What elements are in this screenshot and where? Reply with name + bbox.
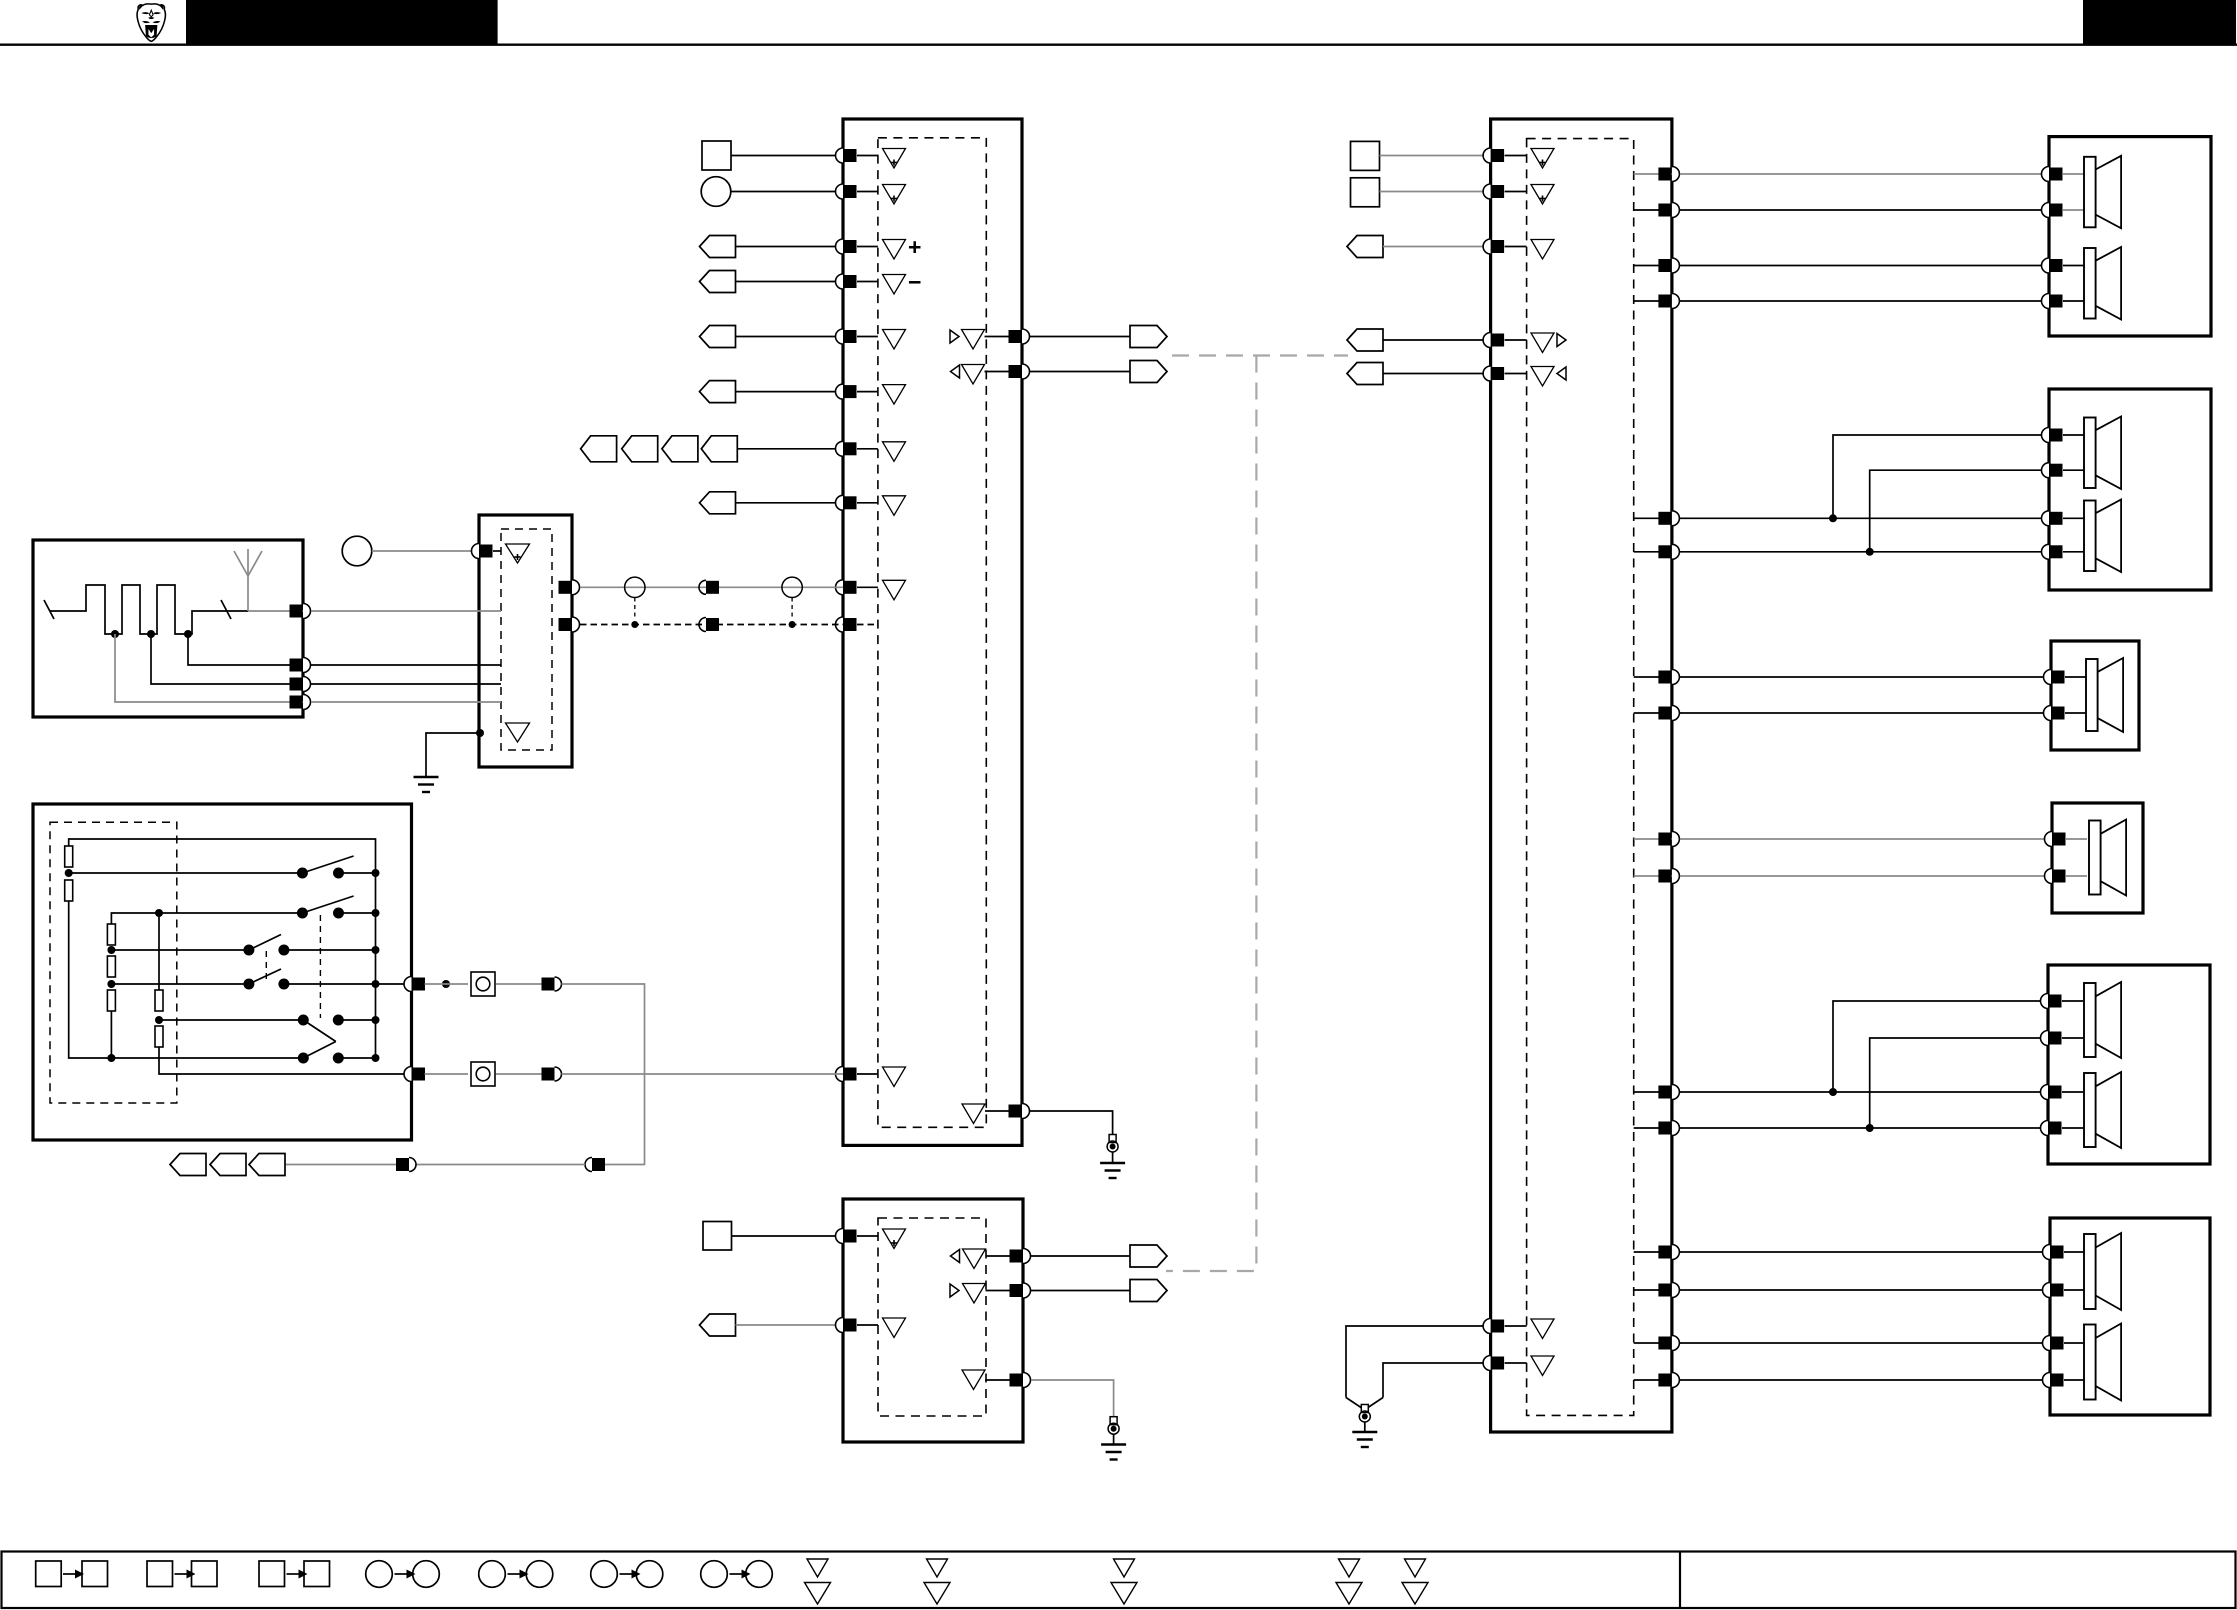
resistor R1 <box>65 846 73 867</box>
grommet 1 shield tie <box>631 598 638 629</box>
antenna amplifier U4 box <box>479 515 572 767</box>
speaker box SP5 <box>2048 965 2210 1164</box>
U3 pin1 triangle <box>883 1229 906 1249</box>
element tap 2 <box>147 630 303 684</box>
SP2 pin 3 <box>2042 511 2084 526</box>
out arrow B <box>1130 361 1167 383</box>
resistor R7 <box>155 1026 163 1047</box>
U1 pin 5 <box>836 329 878 344</box>
screened link horizontal <box>1172 354 1348 356</box>
arrow tag A4 <box>700 271 736 293</box>
pin 5 triangle <box>883 330 906 350</box>
U1 out pin B <box>1009 364 1030 379</box>
U2 out row 14 wire <box>1634 1283 2049 1298</box>
row6 branch <box>1866 470 2049 556</box>
wire out A <box>1030 336 1130 338</box>
U3 out arrow 2 <box>1130 1280 1167 1302</box>
switch pack dashed module <box>50 822 177 1103</box>
R2 chain wire <box>69 901 112 1058</box>
U3 out pin 2 <box>1010 1283 1031 1298</box>
switch linkage C-D (dashed) <box>265 951 267 982</box>
U2 pin 1 <box>1483 148 1526 163</box>
resistor R4 <box>107 956 115 977</box>
amplifier U3 box <box>843 1199 1023 1442</box>
wire tags segment <box>285 1164 396 1166</box>
U2 out row 15 wire <box>1634 1336 2049 1351</box>
arrow tag A7 <box>700 381 736 403</box>
resistor R3 <box>107 924 115 945</box>
node E <box>155 1016 163 1024</box>
pin 13 triangle <box>962 1104 1013 1124</box>
resistor R2 <box>65 880 73 901</box>
row A wire <box>69 872 376 874</box>
U1 pin 11 (shield) <box>836 617 878 632</box>
U2 pin2 triangle <box>1531 185 1554 205</box>
U4 ground triangle <box>506 723 530 742</box>
legend pair 4 <box>366 1561 440 1588</box>
coax grommet 1 <box>625 577 645 597</box>
pin 12 triangle <box>883 1067 906 1087</box>
wire to arrow tags <box>416 1164 585 1166</box>
R7 output wire <box>159 1047 412 1074</box>
U2 pin6 triangle <box>1531 1319 1554 1339</box>
U4 ground wire <box>426 733 479 777</box>
coax wire <box>580 586 843 588</box>
SP5 pin 1 <box>2041 994 2083 1009</box>
wire J1 to connector <box>496 983 542 985</box>
SP4 pin 1 <box>2045 832 2088 847</box>
wire A4 to U1 pin4 <box>736 281 844 283</box>
arrow tag A5 <box>700 326 736 348</box>
row B wire <box>111 913 375 924</box>
U2 out row 6 wire <box>1634 544 2049 559</box>
element tap 3 <box>184 630 303 665</box>
speaker SP5a <box>2084 982 2121 1058</box>
U4 pin 1 <box>472 544 502 559</box>
U2 out row 1 wire <box>1634 167 2049 182</box>
inline joint J2 <box>471 1062 495 1086</box>
U1 pin 12 (switch input) <box>836 1067 878 1082</box>
U4 pin1 triangle <box>506 544 530 563</box>
antenna symbol <box>234 549 262 611</box>
legend pair 7 <box>701 1561 773 1588</box>
U1 ground eyelet <box>1107 1135 1118 1164</box>
screen pin 3 <box>290 677 311 692</box>
SP2 pin 1 <box>2042 428 2084 443</box>
feed wire top <box>69 839 376 873</box>
U2 pin4 triangle pair <box>1531 333 1566 353</box>
screen pin 1 <box>290 604 311 619</box>
U2 out row 7 wire <box>1634 670 2049 685</box>
U2 out row 4 wire <box>1634 294 2049 309</box>
antenna feed wire <box>248 610 303 612</box>
wire S1 to U1 pin1 <box>731 155 843 157</box>
legend pair 5 <box>479 1561 553 1588</box>
arrow tag A13 <box>1347 363 1383 385</box>
U1 pin 9 <box>836 495 878 510</box>
U4 shield out pin <box>559 617 580 632</box>
U3 out arrow 1 <box>1130 1245 1167 1267</box>
SP6 pin 4 <box>2043 1373 2085 1388</box>
element slash right <box>221 600 231 619</box>
legend triangles 4 <box>1336 1559 1362 1604</box>
U2 out row 10 wire <box>1634 869 2049 884</box>
resistor R6 <box>155 990 163 1011</box>
connector C2 (circle) <box>342 536 372 566</box>
amplifier U1 box <box>843 119 1022 1145</box>
U1 pin 2 <box>836 184 878 199</box>
amplifier U1 inner dashed connector <box>878 138 986 1128</box>
wire C2 to U4 <box>372 550 479 552</box>
wire S4 to U2 <box>1380 191 1491 193</box>
U3 ground pin <box>1010 1373 1031 1388</box>
wire A13 to U2 <box>1383 373 1491 375</box>
speaker SP6a <box>2084 1233 2121 1310</box>
inline connector K2 <box>585 1158 605 1172</box>
row D wire <box>111 980 411 988</box>
speaker SP1b <box>2084 247 2121 320</box>
SP3 pin 1 <box>2044 670 2087 685</box>
row F wire <box>111 1057 375 1059</box>
speaker SP6b <box>2084 1324 2121 1401</box>
U2 ground symbol <box>1352 1432 1377 1447</box>
collector bus <box>375 870 377 1058</box>
speaker SP1a <box>2084 156 2121 229</box>
arrow tag A12 <box>1347 329 1383 351</box>
grommet 2 shield tie <box>789 598 796 629</box>
SP5 pin 2 <box>2041 1031 2083 1046</box>
SP3 pin 2 <box>2044 706 2087 721</box>
switch pack pin A <box>404 977 425 992</box>
U2 out row 5 wire <box>1634 511 2049 526</box>
legend pair 3 <box>259 1561 330 1587</box>
legend triangles 1 <box>805 1559 831 1604</box>
wire A10 to U3 <box>736 1324 844 1326</box>
speaker box SP3 <box>2051 641 2139 750</box>
junction on output A <box>442 980 450 988</box>
U2 out row 2 wire <box>1634 203 2049 218</box>
out arrow A <box>1130 326 1167 348</box>
arrow tag A9 <box>700 492 736 514</box>
SP1 pin 4 <box>2042 294 2084 309</box>
resistor R5 <box>107 990 115 1011</box>
switch linkage B-E (dashed) <box>319 915 321 1018</box>
legend triangles 5 <box>1402 1559 1428 1604</box>
U3 ground symbol <box>1101 1445 1126 1460</box>
U3 out wire 1 <box>1031 1255 1130 1257</box>
pin 4 triangle (-) <box>883 269 922 295</box>
wire S3 to U2 <box>1380 155 1491 157</box>
U2 pin 7 wire <box>1383 1363 1491 1398</box>
U3 out pin 1 <box>1010 1249 1031 1264</box>
U2 pin 4 <box>1483 333 1526 348</box>
U1 pin 8 <box>836 441 878 456</box>
connector S4 (square) <box>1351 178 1380 207</box>
top-right title block (black) <box>2083 0 2236 44</box>
U2 pin 5 <box>1483 366 1526 381</box>
U3 pin 2 <box>836 1318 878 1333</box>
coax inline connector <box>699 580 719 594</box>
U3 pin 1 <box>836 1229 878 1244</box>
arrow tags T group <box>170 1154 285 1176</box>
element tap 1 <box>111 630 303 702</box>
U2 pin5 triangle pair <box>1531 367 1566 387</box>
switch SW1 <box>297 856 380 879</box>
node C <box>107 946 115 954</box>
wire screen to U4 d <box>311 701 501 703</box>
switch pack box <box>33 804 412 1140</box>
row12 branch <box>1866 1038 2049 1132</box>
svg-text:+: + <box>908 234 921 260</box>
U2 pin1 triangle <box>1531 149 1554 169</box>
element slash left <box>44 600 54 619</box>
row5 branch <box>1829 435 2049 522</box>
wire screen to U4 b <box>311 664 501 666</box>
U2 out row 12 wire <box>1634 1121 2049 1136</box>
row C wire <box>111 949 375 951</box>
coax grommet 2 <box>782 577 802 597</box>
speaker box SP4 <box>2052 803 2143 913</box>
speaker SP2b <box>2084 500 2121 573</box>
U2 out row 11 wire <box>1634 1085 2049 1100</box>
speaker SP5b <box>2084 1072 2121 1148</box>
SP6 pin 2 <box>2043 1283 2085 1298</box>
U4 ground junction <box>476 729 484 737</box>
U2 out row 13 wire <box>1634 1245 2049 1260</box>
switch pack pin B <box>404 1067 425 1082</box>
arrow tag A11 <box>1347 236 1383 258</box>
switch SW3 <box>243 935 379 956</box>
SP1 pin 2 <box>2042 203 2084 218</box>
SP6 pin 1 <box>2043 1245 2085 1260</box>
amplifier U2 box <box>1491 119 1672 1432</box>
pin 10 triangle <box>883 580 906 600</box>
wire out B <box>1030 371 1130 373</box>
U3 out triangle pair 2 <box>950 1284 1013 1304</box>
connector S3 (square) <box>1351 141 1380 170</box>
legend triangles 2 <box>924 1559 950 1604</box>
U3 out wire 2 <box>1031 1290 1130 1292</box>
pin 5 out triangle pair <box>950 330 1013 350</box>
U1 ground wire <box>1030 1111 1113 1134</box>
wire pinB to joint <box>425 1073 469 1075</box>
inline connector K3 <box>396 1158 416 1172</box>
wire pinA to joint <box>425 983 469 985</box>
U2 out row 3 wire <box>1634 258 2049 273</box>
legend pair 6 <box>591 1561 663 1588</box>
U2 out row 16 wire <box>1634 1373 2049 1388</box>
wire A7 to U1 pin7 <box>736 391 844 393</box>
arrow tags A8 group <box>581 436 738 462</box>
arrow tag A10 <box>700 1314 736 1336</box>
switch SW5 <box>298 1015 380 1042</box>
wire A route <box>562 984 645 1165</box>
shield inline connector <box>699 618 719 632</box>
legend divider <box>1679 1552 1681 1609</box>
node A <box>65 869 73 877</box>
wire screen to U4 a <box>311 610 501 612</box>
legend box <box>2 1552 2236 1609</box>
Jaguar growler logo <box>137 4 165 41</box>
U3 inner dashed connector <box>878 1218 986 1416</box>
U3 pin2 triangle <box>883 1318 906 1338</box>
inline connector K4 <box>542 1067 562 1081</box>
pin 6 in triangle pair <box>951 365 1014 385</box>
wire A8 to U1 pin8 <box>737 448 843 450</box>
pin 3 triangle (+) <box>883 234 922 260</box>
speaker SP2a <box>2084 417 2121 490</box>
U3 ground eyelet <box>1108 1417 1119 1445</box>
U1 pin 4 <box>836 274 878 289</box>
SP2 pin 2 <box>2042 463 2084 478</box>
inline connector K1 <box>542 977 562 991</box>
node D <box>107 980 115 988</box>
U4 coax out pin <box>559 580 580 595</box>
pin 9 triangle <box>883 496 906 516</box>
row11 branch <box>1829 1001 2049 1096</box>
screen pin 4 <box>290 695 311 710</box>
U3 ground wire <box>1031 1380 1114 1417</box>
heated screen element <box>50 585 248 634</box>
pin 1 triangle <box>883 149 906 169</box>
U2 pin 3 <box>1483 239 1526 254</box>
speaker box SP6 <box>2050 1218 2210 1415</box>
wire C1 to U1 pin2 <box>731 191 843 193</box>
legend pair 1 <box>36 1561 108 1587</box>
U3 out triangle pair 1 <box>951 1249 1014 1269</box>
U1 ground symbol <box>1100 1163 1125 1178</box>
R5 bottom wire <box>110 1011 112 1058</box>
speaker SP4 <box>2089 820 2126 896</box>
SP2 pin 4 <box>2042 544 2084 559</box>
U2 inner dashed connector <box>1527 139 1634 1416</box>
legend triangles 3 <box>1111 1559 1137 1604</box>
R6 feed wire <box>158 913 160 990</box>
speaker box SP2 <box>2049 389 2211 590</box>
U2 out row 8 wire <box>1634 706 2049 721</box>
connector S2 (square) <box>703 1222 732 1251</box>
U2 ground eyelet <box>1359 1405 1370 1433</box>
U2 pin 2 <box>1483 184 1526 199</box>
wire A12 to U2 <box>1383 339 1491 341</box>
SP4 pin 2 <box>2045 869 2088 884</box>
svg-text:−: − <box>908 269 921 295</box>
heated screen antenna box <box>33 540 303 717</box>
speaker SP3 <box>2086 658 2123 732</box>
U1 ground pin <box>1009 1104 1030 1119</box>
U1 out pin A <box>1009 329 1030 344</box>
U1 pin 7 <box>836 384 878 399</box>
wire A3 to U1 pin3 <box>736 246 844 248</box>
wire A5 to U1 pin5 <box>736 336 844 338</box>
pin 7 triangle <box>883 385 906 405</box>
screened link vertical <box>1166 356 1256 1272</box>
pin 2 triangle <box>883 185 906 205</box>
wire screen to U4 c <box>311 683 501 685</box>
wire A11 to U2 <box>1383 246 1491 248</box>
speaker box SP1 <box>2049 137 2211 336</box>
U2 out row 9 wire <box>1634 832 2049 847</box>
U2 pin 6 wire <box>1346 1326 1491 1398</box>
connector C1 (circle) <box>701 177 731 207</box>
SP5 pin 4 <box>2041 1121 2083 1136</box>
connector S1 (square) <box>702 141 731 170</box>
wire switch to U1 <box>562 1073 844 1075</box>
U1 pin 10 (antenna) <box>836 580 878 595</box>
U1 pin 3 <box>836 239 878 254</box>
U4 ground symbol <box>414 777 439 792</box>
wire S2 to U3 <box>732 1235 844 1237</box>
row E wire <box>159 1019 376 1021</box>
inline joint J1 <box>471 972 495 996</box>
switch SW2 <box>297 896 380 919</box>
pin 8 triangle <box>883 442 906 462</box>
node B <box>155 909 163 917</box>
U2 pin 7 <box>1483 1356 1526 1371</box>
header rule <box>0 44 2237 46</box>
arrow tag A3 <box>700 236 736 258</box>
U2 pin 6 <box>1483 1319 1526 1334</box>
SP1 pin 1 <box>2042 167 2084 182</box>
U1 pin 1 <box>836 148 878 163</box>
switch SW6 <box>298 1042 380 1064</box>
U2 pin3 triangle <box>1531 240 1554 260</box>
U2 ground merge <box>1346 1398 1383 1408</box>
SP1 pin 3 <box>2042 258 2084 273</box>
node F <box>107 1054 115 1062</box>
wire A9 to U1 pin9 <box>736 502 844 504</box>
SP6 pin 3 <box>2043 1336 2085 1351</box>
title bar (black) <box>186 0 498 44</box>
screen pin 2 <box>290 658 311 673</box>
U4 inner dashed connector <box>501 529 552 750</box>
wire J2 to connector <box>496 1073 542 1075</box>
switch SW4 <box>243 969 289 990</box>
SP5 pin 3 <box>2041 1085 2083 1100</box>
U3 ground triangle <box>962 1370 1013 1390</box>
U2 pin7 triangle <box>1531 1356 1554 1376</box>
legend pair 2 <box>147 1561 217 1587</box>
shield wire (dashed) <box>580 624 843 626</box>
